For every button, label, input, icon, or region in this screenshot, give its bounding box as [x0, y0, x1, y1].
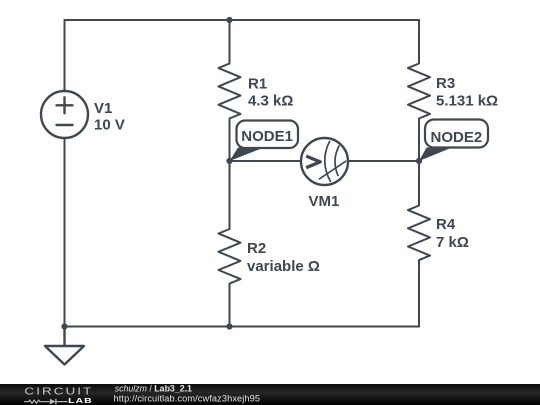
wire left column upper (to V1)	[64, 20, 66, 91]
logo resistor-diode line	[24, 399, 68, 405]
label R1 value	[248, 75, 293, 109]
svg-text:V1: V1	[94, 100, 112, 117]
ground	[45, 327, 84, 365]
voltmeter VM1	[301, 138, 348, 185]
label R3 value	[436, 75, 498, 109]
wire top horizontal	[65, 19, 420, 21]
footer bar	[0, 384, 540, 405]
svg-text:7 kΩ: 7 kΩ	[436, 234, 469, 251]
svg-text:R1: R1	[248, 75, 267, 92]
resistor R2	[219, 161, 241, 327]
svg-text:schulzm / Lab3_2.1: schulzm / Lab3_2.1	[115, 383, 192, 393]
junction dot top middle	[226, 17, 232, 23]
wire bottom horizontal	[65, 326, 420, 328]
svg-text:http://circuitlab.com/cwfaz3hx: http://circuitlab.com/cwfaz3hxejh95	[114, 393, 261, 403]
node NODE2 junction dot	[416, 158, 422, 164]
svg-text:NODE1: NODE1	[241, 128, 293, 145]
wire node1 to voltmeter	[230, 160, 302, 162]
node NODE1 label bubble	[230, 121, 299, 162]
label R2 value	[247, 240, 320, 275]
wire voltmeter to node2	[348, 160, 419, 162]
svg-text:NODE2: NODE2	[431, 129, 483, 146]
resistor R4	[408, 161, 430, 327]
wire left column lower (V1 to bottom)	[64, 138, 66, 327]
resistor R1	[219, 20, 241, 161]
label V1 value	[94, 100, 125, 134]
node NODE2 label bubble	[419, 120, 488, 162]
svg-text:R2: R2	[247, 240, 266, 257]
svg-text:4.3 kΩ: 4.3 kΩ	[248, 93, 293, 110]
svg-text:variable Ω: variable Ω	[247, 258, 320, 275]
svg-text:5.131 kΩ: 5.131 kΩ	[436, 93, 498, 110]
svg-text:LAB: LAB	[68, 397, 93, 405]
junction dot bottom left	[61, 323, 67, 329]
svg-text:R3: R3	[436, 75, 455, 92]
svg-text:R4: R4	[436, 216, 456, 233]
junction dot bottom middle	[226, 323, 232, 329]
resistor R3	[408, 20, 430, 161]
svg-text:CIRCUIT: CIRCUIT	[24, 385, 93, 397]
label R4 value	[436, 216, 469, 251]
voltage source V1	[41, 91, 88, 138]
node NODE1 junction dot	[226, 158, 232, 164]
svg-text:10 V: 10 V	[94, 117, 125, 134]
svg-text:VM1: VM1	[309, 193, 340, 210]
